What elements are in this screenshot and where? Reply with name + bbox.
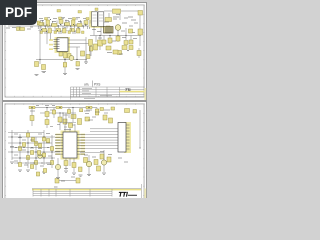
- transistor Q101: [86, 161, 92, 167]
- web dots extra: [11, 136, 52, 163]
- ground GND2: [63, 74, 67, 75]
- wire rail end drop: [96, 108, 98, 110]
- band texture dots: [43, 21, 91, 32]
- cluster mid2: label specks: [107, 53, 123, 55]
- cluster left bottom: resistor R12: [35, 62, 39, 67]
- chain x69 top: [67, 108, 70, 119]
- wire second rail: [40, 112, 76, 114]
- resistor R120: [94, 160, 98, 165]
- cluster bottom small: capacitor C104: [76, 178, 80, 183]
- node dots top bus: [44, 25, 83, 26]
- wire h y152: [8, 151, 60, 153]
- node dots y35: [99, 35, 126, 36]
- resistor R133: [97, 166, 101, 171]
- wire band to U1 b: [50, 33, 52, 40]
- ground GND12: [18, 170, 22, 171]
- capacitor C6 chain: [137, 48, 141, 58]
- wire below K1 a: [93, 27, 95, 36]
- PDF badge: [0, 0, 37, 25]
- mini table label speck: [54, 186, 58, 188]
- label specks band upper: [39, 18, 87, 33]
- top specks near frame: [57, 8, 98, 13]
- capacitor C108: [80, 109, 83, 112]
- cluster top mid: capacitor C102: [78, 119, 82, 125]
- resistor R109: [26, 133, 29, 137]
- U1 pins right wires: [68, 40, 90, 47]
- U2 right pin pads: [81, 134, 86, 155]
- resistor R132: [43, 169, 46, 173]
- rail highlight H3: [86, 106, 92, 109]
- J2 pin ticks right: [126, 125, 130, 149]
- wire drop x126: [125, 28, 127, 40]
- wire h y158: [12, 157, 55, 159]
- junction dots web: [11, 136, 52, 158]
- tick at badge corner: [37, 26, 39, 29]
- wire stub left: [19, 26, 21, 30]
- op-amp U1 glow: [55, 37, 71, 53]
- transistor Q104: [38, 154, 43, 159]
- ground GND14: [79, 175, 83, 176]
- ground GND6: [26, 170, 30, 171]
- connector J2 glow: [124, 122, 131, 153]
- resistor R115: [50, 147, 53, 151]
- wire bus y35: [90, 35, 141, 37]
- resistor R107: [31, 138, 34, 142]
- resistor R4: [77, 24, 82, 27]
- capacitor C4: [106, 26, 110, 33]
- wire v x36: [35, 137, 37, 170]
- svg-text:um.: um.: [84, 83, 89, 87]
- relay K1 body A: [92, 12, 98, 26]
- svg-text:TTi: TTi: [119, 191, 128, 198]
- resistor R103: [45, 120, 49, 125]
- resistor R124: [37, 151, 40, 155]
- resistor R128: [46, 139, 49, 143]
- capacitor C8: [48, 29, 52, 34]
- wire h y163: [14, 162, 52, 164]
- svg-text:PDF: PDF: [5, 5, 32, 20]
- resistor R117: [64, 161, 68, 166]
- wire drop x65: [64, 58, 66, 73]
- ground GND10: [76, 69, 80, 70]
- op-amp U1 body: [57, 38, 68, 52]
- capacitor C103: [125, 109, 130, 113]
- wire drop x109: [108, 13, 110, 20]
- resistor R111: [34, 142, 37, 146]
- title block sheet2 highlight: [32, 189, 141, 191]
- resistor R11: [138, 29, 143, 35]
- rail highlight H1: [29, 106, 35, 109]
- sheet 2 page: [3, 102, 147, 199]
- wire below K1 b: [100, 27, 102, 36]
- band filler dots: [41, 18, 89, 31]
- resistor R121: [100, 154, 104, 159]
- resistor R113: [42, 137, 45, 141]
- wire top rail: [29, 107, 97, 109]
- below-U1: resistor R15: [68, 54, 72, 59]
- wire drop x140: [139, 15, 141, 46]
- resistor R102: [45, 112, 49, 117]
- title text specks sheet1: [82, 88, 112, 98]
- resistor R125: [22, 143, 25, 147]
- sheet 2 inner frame: [5, 104, 145, 201]
- cluster top mid: resistor R104: [71, 115, 76, 119]
- resistor R136: [133, 110, 137, 114]
- resistor R3: [65, 23, 70, 26]
- sheet 2 frame ticks: [5, 104, 144, 198]
- extra web specks: [10, 134, 52, 167]
- ground GND9: [102, 173, 106, 174]
- node A: [39, 59, 40, 60]
- diode D4: [129, 29, 133, 33]
- sheet 1 page: [3, 3, 147, 101]
- U2 pins left: [55, 135, 63, 155]
- wire q103: [57, 158, 59, 177]
- wire drop x60: [59, 113, 61, 130]
- wire drop x74: [73, 158, 75, 172]
- wire bottom bus: [36, 59, 85, 61]
- wire v x52: [51, 135, 53, 168]
- capacitor C5: [98, 40, 103, 46]
- resistor R6: [42, 29, 47, 32]
- relay K1 body B: [98, 12, 104, 26]
- wire drop x104: [103, 36, 105, 46]
- wire h y137: [8, 136, 55, 138]
- resistor R22: [118, 51, 122, 55]
- capacitor C106: [100, 108, 104, 111]
- title block highlight right edge: [144, 88, 146, 100]
- band extra yellow bits: [40, 17, 89, 34]
- resistor R116: [50, 161, 53, 165]
- specks under relay: [92, 30, 101, 32]
- scatter specks upper right: [98, 15, 138, 42]
- highlight right edge sheet2: [144, 189, 146, 199]
- under-rail cluster: capacitor C105: [63, 119, 67, 124]
- label specks web: [14, 134, 50, 163]
- transistor Q2: [69, 56, 74, 61]
- capacitor C10: [77, 29, 81, 34]
- resistor R134: [36, 172, 39, 176]
- capacitor C101: [58, 117, 62, 122]
- resistor R137: [79, 167, 83, 172]
- band filler ticks: [47, 23, 86, 26]
- connector J2 body: [118, 123, 126, 153]
- bottom specks: [47, 152, 112, 182]
- crystal Y1: [122, 46, 133, 52]
- resistor R129: [18, 163, 21, 167]
- capacitor C2: [72, 20, 76, 26]
- wire bottom h: [59, 180, 80, 182]
- resistor R21: [81, 51, 85, 56]
- resistor R1: [39, 23, 44, 26]
- U1 pins left: [54, 40, 60, 49]
- wire h y147: [10, 147, 50, 149]
- wire drop x70: [69, 158, 71, 166]
- diode D2: [84, 21, 88, 25]
- below-U1: resistor R14: [59, 52, 63, 56]
- cluster mid2: resistor R18: [113, 50, 118, 54]
- wire fuse right: [121, 10, 138, 12]
- wire drop x120b: [119, 14, 121, 21]
- left strip specks: [6, 27, 33, 28]
- transistor Q102: [101, 160, 106, 165]
- ground GND1: [42, 72, 47, 73]
- wire top bus: [8, 25, 95, 27]
- cluster mid: capacitor C7: [94, 44, 98, 50]
- transistor Q1: [115, 25, 121, 31]
- sheet 1 frame ticks: [5, 5, 144, 97]
- label speck left edge: [27, 28, 31, 30]
- diode D1: [59, 20, 63, 24]
- cluster mid: resistor R17: [89, 40, 93, 46]
- U2 pins right: [77, 135, 85, 155]
- relay K1 glow2: [91, 26, 104, 28]
- wire drop x86: [85, 37, 87, 60]
- resistor R9: [108, 38, 112, 43]
- wire left drop x40: [39, 26, 41, 64]
- resistor R2: [52, 24, 58, 27]
- label specks right: [104, 17, 136, 22]
- wire h y132: [8, 132, 44, 134]
- wire band to U1 a: [46, 31, 48, 44]
- resistor R5: [90, 24, 95, 27]
- resistor R106: [109, 118, 113, 123]
- rail highlight H2: [56, 106, 62, 109]
- chain x54 top: [52, 108, 55, 119]
- above-rail specks: [36, 104, 55, 106]
- below-U1: capacitor C13: [64, 53, 68, 59]
- title block sheet2 lines: [32, 184, 142, 198]
- under-rail cluster: resistor R131: [69, 123, 73, 128]
- resistor R19: [20, 28, 25, 31]
- wire fuse left: [104, 10, 112, 12]
- resistor R127: [38, 144, 41, 148]
- net divider: [92, 81, 94, 87]
- node dots rails: [31, 107, 89, 114]
- wire v x12: [11, 130, 13, 160]
- resistor R7: [56, 29, 61, 32]
- title block sheet1: [71, 87, 145, 100]
- ground GND8: [56, 178, 60, 179]
- wire right riser x140: [139, 110, 141, 148]
- ground GND5: [87, 175, 91, 176]
- ground GND13: [35, 75, 39, 76]
- U1 pin pads: [49, 39, 53, 50]
- wire second bus: [38, 30, 80, 32]
- wire drop x96: [95, 36, 97, 43]
- resistor R119: [84, 158, 88, 163]
- resistor R105: [103, 115, 107, 120]
- ground GND7: [10, 162, 14, 163]
- capacitor C14: [37, 21, 40, 25]
- below connector specks: [118, 158, 128, 162]
- capacitor C1: [46, 20, 50, 26]
- wire h y152 right: [80, 152, 104, 154]
- ground GND4: [72, 173, 76, 174]
- relay K1 glow: [89, 11, 92, 28]
- wire drop x100: [99, 36, 101, 51]
- wire drop x118: [117, 31, 119, 43]
- wire drop x32: [31, 108, 33, 127]
- ground GND11: [42, 172, 46, 173]
- wire drop x90 low: [89, 46, 91, 56]
- top cluster ticks: [50, 125, 75, 128]
- right text specks: [86, 110, 110, 120]
- bus dots: [64, 59, 86, 60]
- capacitor C9: [63, 29, 67, 34]
- fuse F1: [113, 9, 121, 13]
- label specks T1: [113, 17, 127, 23]
- label specks top: [30, 110, 96, 117]
- resistor R108: [18, 147, 21, 151]
- chain x63 top: [62, 112, 63, 122]
- resistor R118: [72, 163, 76, 168]
- vertical part at rail end: [95, 109, 99, 115]
- below-bus: resistor R24: [76, 62, 80, 67]
- title block highlight row: [120, 91, 145, 93]
- varistor RV1: [105, 18, 112, 22]
- wire v x20: [19, 134, 21, 165]
- connector J1 cluster: [104, 27, 114, 34]
- sheet 1 inner frame: [5, 5, 145, 97]
- ground GND3: [64, 171, 68, 172]
- ground GND15: [84, 60, 88, 64]
- bus U2 to J2: [85, 129, 118, 149]
- resistor R130: [30, 165, 33, 169]
- wire h y122: [60, 122, 76, 124]
- wire h y143: [8, 142, 52, 144]
- resistor R16: [63, 63, 66, 68]
- transistor Q103: [55, 164, 60, 169]
- wire drop x66: [65, 158, 67, 170]
- capacitor C15: [17, 27, 20, 31]
- resistor R20: [124, 41, 128, 45]
- wire v x44: [43, 130, 45, 165]
- resistor R110: [26, 156, 29, 160]
- capacitor C3: [138, 11, 143, 16]
- wire drop x110: [109, 36, 111, 45]
- cluster left bottom: resistor R13: [42, 65, 46, 70]
- wire v x28: [27, 130, 29, 168]
- capacitor C107: [111, 107, 115, 110]
- cluster mid2: diode D3: [106, 46, 111, 50]
- resistor R23: [129, 40, 133, 44]
- capacitor C12: [102, 40, 106, 44]
- cluster bottom small: resistor R123: [55, 179, 59, 184]
- wire drop x77: [76, 47, 78, 60]
- under-rail wire v x66: [65, 113, 67, 125]
- wire drop x131: [130, 36, 132, 45]
- resistor R122: [107, 157, 111, 162]
- logo underline: [128, 194, 137, 197]
- mcu U2 glow: [61, 131, 80, 160]
- band texture dark ticks: [41, 20, 90, 30]
- under-rail wire v x73: [72, 108, 74, 123]
- K1 coil marks: [93, 15, 104, 21]
- wire q chain: [89, 150, 104, 174]
- U2 label speck: [64, 129, 71, 131]
- label specks row1: [40, 20, 81, 23]
- wire drop x47: [46, 108, 48, 129]
- resistor R10: [116, 36, 120, 41]
- resistor R114: [42, 153, 45, 157]
- capacitor C11: [86, 55, 90, 59]
- svg-text:TTi.: TTi.: [125, 88, 131, 92]
- resistor R101: [30, 116, 34, 121]
- resistor R112: [34, 161, 37, 165]
- cluster top mid: diode D101: [85, 117, 90, 121]
- U2 left pin pads: [56, 134, 61, 155]
- svg-text:PXS: PXS: [94, 83, 100, 87]
- mcu U2 body: [63, 132, 77, 158]
- resistor R8: [70, 29, 75, 32]
- chain x91: resistor R25: [89, 43, 93, 56]
- resistor R126: [30, 151, 33, 155]
- U2 top feed wires: [65, 124, 75, 132]
